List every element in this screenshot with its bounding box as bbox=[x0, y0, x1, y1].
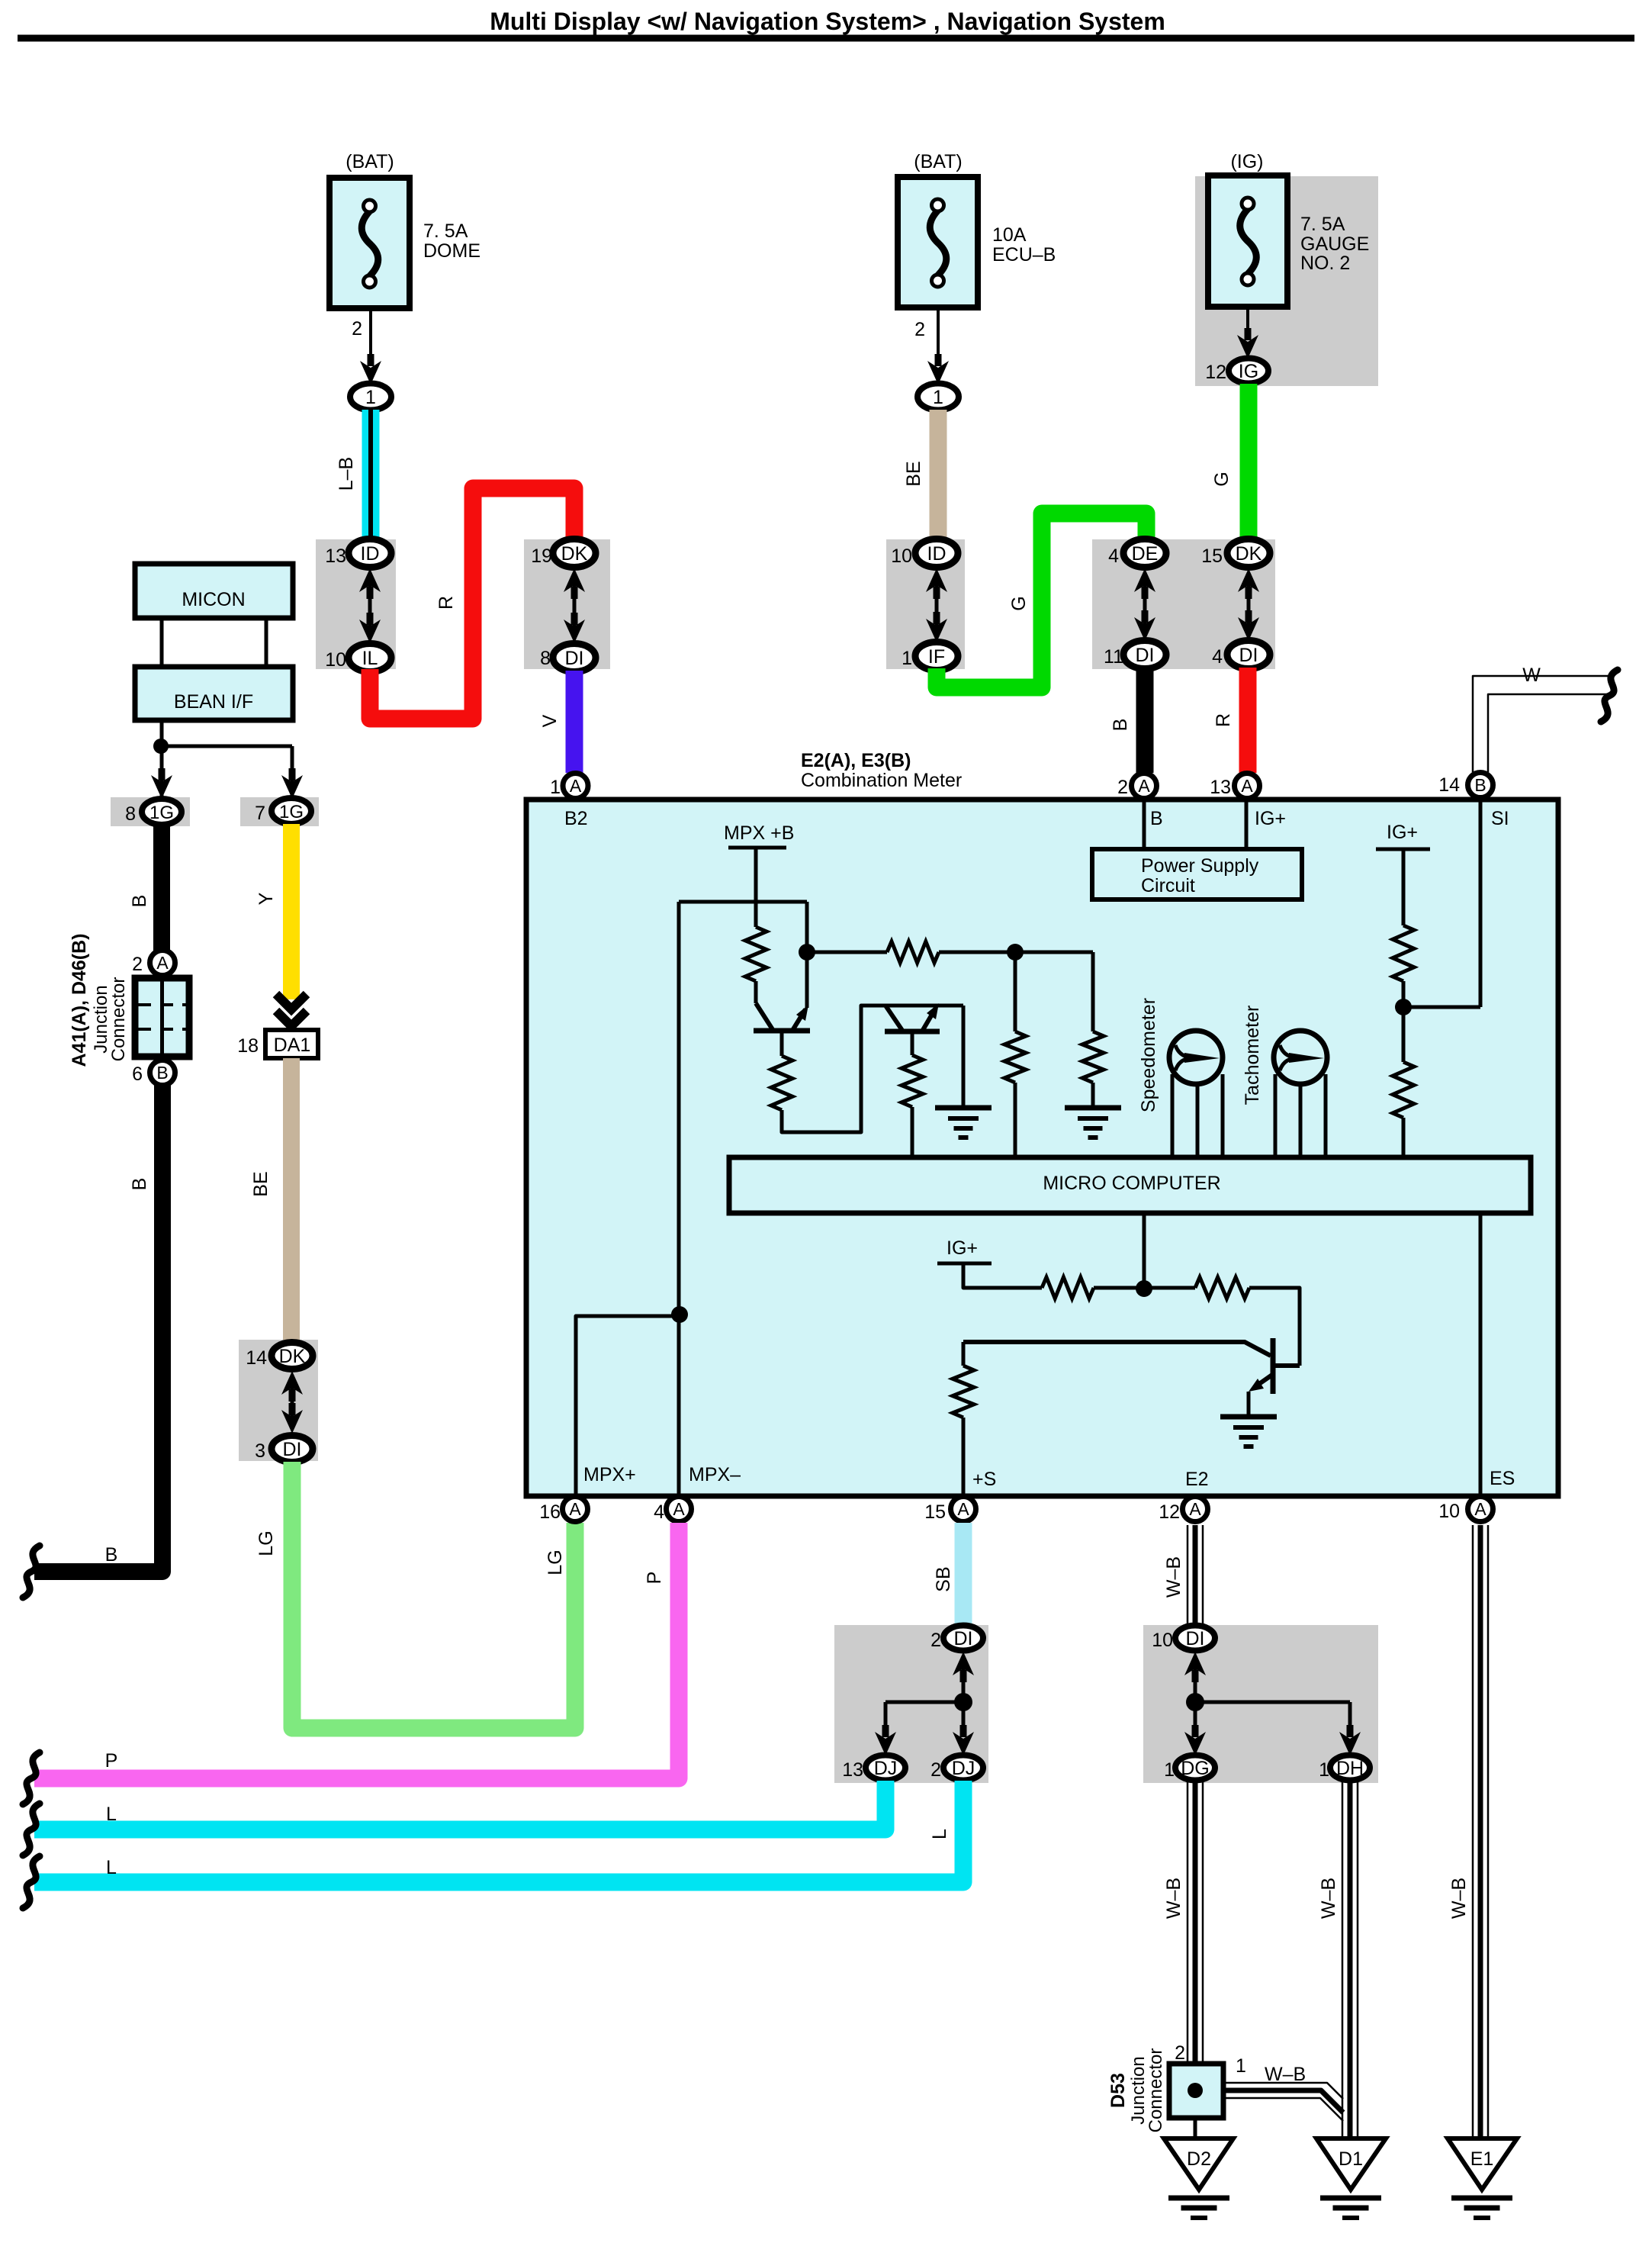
wire to MPX+ pin bbox=[576, 1316, 680, 1496]
resistor R8 bbox=[1393, 1062, 1414, 1118]
svg-text:Connector: Connector bbox=[108, 977, 129, 1062]
connector block 19 DK / 8 DI bbox=[524, 539, 610, 669]
svg-text:D53: D53 bbox=[1107, 2073, 1129, 2108]
arrow to 13 DJ bbox=[884, 1702, 888, 1733]
block BEAN I/F bbox=[135, 667, 293, 720]
wire break W bbox=[1601, 670, 1618, 722]
svg-text:DI: DI bbox=[565, 648, 584, 669]
resistor R9 bbox=[1042, 1277, 1094, 1298]
svg-text:1: 1 bbox=[933, 387, 943, 408]
node DG/DH split bbox=[1186, 1693, 1204, 1711]
svg-text:DA1: DA1 bbox=[274, 1035, 311, 1056]
wire R from 4 DI to meter pin 13 A bbox=[1239, 668, 1257, 773]
svg-text:6: 6 bbox=[132, 1064, 143, 1085]
svg-text:ID: ID bbox=[927, 543, 947, 565]
transistor Q2 bbox=[885, 1006, 903, 1031]
svg-text:IF: IF bbox=[928, 646, 945, 668]
svg-text:2: 2 bbox=[930, 1630, 941, 1651]
svg-text:(IG): (IG) bbox=[1230, 151, 1263, 172]
svg-text:MICRO COMPUTER: MICRO COMPUTER bbox=[1043, 1173, 1220, 1194]
transistor Q1 bbox=[756, 1003, 773, 1031]
svg-text:MPX+: MPX+ bbox=[583, 1464, 636, 1485]
svg-text:P: P bbox=[105, 1750, 118, 1772]
svg-text:R: R bbox=[435, 596, 457, 610]
connector oval 1 (ECU-B) bbox=[918, 384, 959, 410]
svg-text:G: G bbox=[1211, 471, 1233, 486]
micro computer block bbox=[729, 1157, 1531, 1213]
svg-text:13: 13 bbox=[1210, 777, 1231, 798]
svg-text:BE: BE bbox=[250, 1171, 272, 1196]
svg-text:B2: B2 bbox=[564, 808, 588, 829]
svg-text:B: B bbox=[105, 1544, 118, 1566]
ground under R6 bbox=[1065, 1105, 1121, 1111]
block MICON bbox=[135, 564, 293, 618]
svg-text:ES: ES bbox=[1490, 1468, 1515, 1489]
svg-text:DI: DI bbox=[1136, 645, 1155, 666]
svg-text:MPX–: MPX– bbox=[689, 1464, 741, 1485]
svg-text:L–B: L–B bbox=[336, 457, 357, 491]
svg-text:E2: E2 bbox=[1185, 1469, 1209, 1490]
resistor R2 bbox=[807, 951, 887, 954]
connector block 4 DE / 11 DI and 15 DK / 4 DI bbox=[1092, 539, 1275, 669]
svg-text:4: 4 bbox=[654, 1501, 664, 1523]
svg-text:NO. 2: NO. 2 bbox=[1300, 253, 1350, 274]
svg-text:W–B: W–B bbox=[1163, 1556, 1184, 1598]
svg-text:DK: DK bbox=[1236, 543, 1262, 565]
svg-text:DH: DH bbox=[1336, 1758, 1364, 1779]
svg-text:D1: D1 bbox=[1339, 2148, 1363, 2170]
wire to MPX- pin bbox=[677, 1315, 681, 1496]
svg-text:ECU–B: ECU–B bbox=[992, 244, 1056, 265]
svg-text:GAUGE: GAUGE bbox=[1300, 233, 1369, 255]
svg-text:13: 13 bbox=[842, 1759, 863, 1781]
svg-text:B: B bbox=[129, 1178, 150, 1191]
svg-text:14: 14 bbox=[1438, 774, 1460, 796]
wire BEAN I/F to 1G connectors bbox=[160, 720, 164, 799]
svg-text:DJ: DJ bbox=[874, 1758, 898, 1779]
svg-text:BE: BE bbox=[903, 461, 924, 486]
svg-text:R: R bbox=[1213, 713, 1234, 727]
svg-text:SI: SI bbox=[1491, 808, 1509, 829]
connector 8 1G bbox=[111, 797, 190, 826]
svg-text:LG: LG bbox=[545, 1550, 566, 1575]
wires MICON to BEAN I/F bbox=[160, 618, 164, 667]
resistor R6 with ground bbox=[1091, 952, 1095, 1031]
svg-text:2: 2 bbox=[1175, 2042, 1185, 2064]
svg-text:16: 16 bbox=[539, 1501, 561, 1523]
svg-text:2: 2 bbox=[132, 954, 143, 975]
svg-text:A: A bbox=[957, 1499, 969, 1519]
svg-text:8: 8 bbox=[125, 803, 136, 825]
connector block 10 ID / 1 IF bbox=[886, 539, 965, 669]
resistor R10 bbox=[1195, 1277, 1249, 1298]
svg-text:2: 2 bbox=[352, 318, 362, 340]
svg-text:DOME: DOME bbox=[423, 240, 480, 262]
wire L from 13 DJ to break bbox=[34, 1781, 885, 1829]
connector 18 DA1 bbox=[265, 1030, 318, 1058]
svg-text:12: 12 bbox=[1205, 362, 1226, 383]
svg-text:19: 19 bbox=[531, 545, 552, 567]
svg-text:Power Supply: Power Supply bbox=[1141, 855, 1259, 877]
wire W-B from 12 A to 10 DI bbox=[1187, 1525, 1189, 1626]
svg-text:A: A bbox=[570, 776, 582, 796]
wire W-B from 1 DH to D1 bbox=[1342, 1781, 1344, 2138]
svg-text:DE: DE bbox=[1132, 543, 1159, 565]
node DJ split bbox=[954, 1693, 972, 1711]
node R2 left bbox=[799, 944, 815, 961]
svg-text:IG: IG bbox=[1239, 361, 1258, 382]
svg-text:8: 8 bbox=[540, 648, 551, 669]
svg-text:W: W bbox=[1522, 665, 1541, 686]
svg-text:D2: D2 bbox=[1187, 2148, 1211, 2170]
svg-text:15: 15 bbox=[1201, 545, 1223, 567]
arrow to 2 DJ bbox=[962, 1702, 966, 1733]
node MPX junction bbox=[671, 1306, 688, 1323]
fuse 7.5A GAUGE NO.2 (IG) with grey panel bbox=[1195, 176, 1378, 386]
svg-text:B: B bbox=[1150, 808, 1163, 829]
svg-text:W–B: W–B bbox=[1318, 1878, 1339, 1919]
junction connector A41(A) D46(B) bbox=[135, 978, 189, 1057]
svg-text:LG: LG bbox=[256, 1530, 277, 1556]
wire Q1 collector feed bbox=[805, 902, 809, 1008]
svg-text:Multi Display <w/ Navigation S: Multi Display <w/ Navigation System> , N… bbox=[490, 8, 1165, 35]
svg-text:1: 1 bbox=[902, 648, 912, 669]
svg-text:10: 10 bbox=[891, 545, 912, 567]
svg-text:DI: DI bbox=[283, 1439, 302, 1460]
svg-text:DI: DI bbox=[1186, 1628, 1205, 1649]
svg-text:IG+: IG+ bbox=[1255, 808, 1286, 829]
svg-text:1G: 1G bbox=[279, 802, 304, 822]
power supply circuit block bbox=[1143, 800, 1146, 849]
svg-text:12: 12 bbox=[1159, 1501, 1180, 1523]
svg-text:G: G bbox=[1008, 596, 1030, 610]
svg-text:18: 18 bbox=[237, 1035, 259, 1057]
svg-text:L: L bbox=[106, 1804, 117, 1825]
svg-text:DK: DK bbox=[561, 543, 588, 565]
connector oval 1 (DOME) bbox=[350, 384, 391, 410]
wire L-B from DOME fuse to 13 ID bbox=[362, 410, 380, 540]
svg-text:A: A bbox=[1474, 1499, 1486, 1519]
svg-text:B: B bbox=[1110, 719, 1131, 732]
svg-text:Y: Y bbox=[256, 892, 277, 905]
transistor Q3 bbox=[963, 1342, 1271, 1356]
svg-text:DJ: DJ bbox=[952, 1758, 975, 1779]
svg-text:1G: 1G bbox=[149, 803, 174, 823]
ground E1 bbox=[1448, 2138, 1517, 2190]
svg-text:L: L bbox=[929, 1829, 950, 1839]
svg-text:A: A bbox=[1138, 776, 1150, 796]
node R9/R10 bbox=[1136, 1280, 1152, 1297]
wire LG from 3 DI to meter pin 16 A bbox=[292, 1462, 575, 1728]
svg-text:A: A bbox=[156, 953, 169, 973]
ground Q3 emitter bbox=[1247, 1392, 1251, 1417]
svg-text:MPX +B: MPX +B bbox=[724, 822, 794, 844]
svg-text:10A: 10A bbox=[992, 224, 1027, 246]
svg-text:A41(A), D46(B): A41(A), D46(B) bbox=[69, 933, 90, 1067]
connector arrow into DA1 bbox=[276, 994, 307, 1009]
wire break B bbox=[23, 1546, 40, 1598]
svg-text:Combination Meter: Combination Meter bbox=[801, 770, 962, 791]
svg-text:IL: IL bbox=[362, 648, 378, 669]
wire W-B from 1 DG to D53 bbox=[1187, 1781, 1189, 2064]
svg-text:4: 4 bbox=[1108, 545, 1119, 567]
svg-text:A: A bbox=[673, 1499, 685, 1519]
svg-text:V: V bbox=[539, 714, 561, 727]
resistor R11 to +S bbox=[962, 1342, 966, 1366]
resistor R1 bbox=[745, 927, 767, 981]
svg-text:7: 7 bbox=[255, 803, 265, 824]
svg-text:Tachometer: Tachometer bbox=[1242, 1006, 1263, 1105]
svg-text:IG+: IG+ bbox=[947, 1237, 978, 1259]
connector 7 1G bbox=[240, 797, 319, 826]
svg-text:Circuit: Circuit bbox=[1141, 875, 1195, 896]
svg-text:DK: DK bbox=[279, 1346, 306, 1367]
svg-text:SB: SB bbox=[933, 1566, 954, 1591]
wire B from 8 1G to junction connector A bbox=[153, 825, 170, 951]
svg-text:14: 14 bbox=[246, 1347, 267, 1369]
ground D2 bbox=[1164, 2138, 1233, 2190]
svg-text:BEAN I/F: BEAN I/F bbox=[174, 691, 253, 713]
svg-text:IG+: IG+ bbox=[1387, 822, 1418, 843]
svg-text:P: P bbox=[644, 1572, 665, 1585]
svg-text:3: 3 bbox=[255, 1440, 265, 1462]
wire P from 4 A to break bbox=[34, 1523, 679, 1778]
wire D53 to ground D2 bbox=[1194, 2118, 1197, 2138]
svg-text:W–B: W–B bbox=[1448, 1878, 1470, 1919]
wire W-B from 10 A to E1 bbox=[1472, 1525, 1474, 2138]
wire SI to node bbox=[1403, 1006, 1480, 1009]
connector block 10 DI / 1 DG / 1 DH bbox=[1143, 1625, 1378, 1783]
wire ES bbox=[1479, 1213, 1483, 1496]
svg-text:A: A bbox=[1189, 1499, 1201, 1519]
wire fuse GAUGE to 12 IG bbox=[1246, 307, 1249, 336]
svg-text:A: A bbox=[1241, 776, 1253, 796]
wire B from 11 DI to meter pin 2 A bbox=[1136, 668, 1154, 773]
svg-text:(BAT): (BAT) bbox=[346, 151, 394, 172]
svg-text:DI: DI bbox=[1239, 645, 1258, 666]
node IG+/SI bbox=[1395, 999, 1412, 1015]
svg-text:DG: DG bbox=[1181, 1758, 1210, 1779]
svg-text:2: 2 bbox=[914, 319, 925, 340]
svg-text:ID: ID bbox=[361, 543, 380, 565]
svg-text:2: 2 bbox=[930, 1759, 941, 1781]
svg-text:B: B bbox=[1474, 775, 1486, 795]
wire L from 2 DJ to break bbox=[34, 1781, 963, 1882]
svg-text:15: 15 bbox=[924, 1501, 946, 1523]
svg-text:Speedometer: Speedometer bbox=[1138, 998, 1159, 1112]
ground Q2 collector bbox=[962, 1006, 966, 1108]
svg-text:7. 5A: 7. 5A bbox=[1300, 214, 1345, 235]
svg-text:10: 10 bbox=[325, 649, 346, 671]
svg-text:+S: +S bbox=[972, 1469, 996, 1490]
svg-text:1: 1 bbox=[550, 777, 561, 798]
svg-text:L: L bbox=[106, 1857, 117, 1878]
svg-text:2: 2 bbox=[1117, 777, 1128, 798]
wire G from 12 IG to 15 DK bbox=[1240, 384, 1258, 540]
svg-text:1: 1 bbox=[1236, 2055, 1246, 2077]
node R5 top bbox=[1007, 944, 1024, 961]
svg-text:1: 1 bbox=[365, 387, 376, 408]
wire BE from DA1 to 14 DK bbox=[283, 1058, 300, 1340]
svg-text:E1: E1 bbox=[1470, 2148, 1494, 2170]
svg-text:DI: DI bbox=[954, 1628, 973, 1649]
svg-text:Connector: Connector bbox=[1146, 2048, 1166, 2133]
svg-text:7. 5A: 7. 5A bbox=[423, 220, 468, 242]
connector block 2 DI / 13 DJ / 2 DJ bbox=[834, 1625, 988, 1783]
connector block 14 DK / 3 DI bbox=[239, 1340, 318, 1461]
ground D1 bbox=[1316, 2138, 1386, 2190]
resistor Q1 base bbox=[780, 1031, 784, 1056]
svg-text:4: 4 bbox=[1212, 646, 1223, 668]
wire G from 1 IF to 4 DE bbox=[937, 513, 1146, 687]
svg-text:(BAT): (BAT) bbox=[914, 151, 962, 172]
wire MPX branch bbox=[679, 900, 807, 904]
svg-text:10: 10 bbox=[1438, 1501, 1460, 1522]
svg-text:B: B bbox=[129, 895, 150, 908]
wire R2 to R6 corner bbox=[939, 951, 1093, 954]
resistor Q2 base bbox=[911, 1031, 914, 1055]
resistor R7 bbox=[1393, 925, 1414, 981]
wire B from junction connector to break bbox=[34, 1085, 162, 1572]
title rule bbox=[18, 35, 1634, 42]
connector block 13 ID / 10 IL bbox=[316, 539, 396, 669]
svg-text:13: 13 bbox=[325, 545, 346, 567]
svg-text:B: B bbox=[156, 1063, 168, 1083]
svg-text:10: 10 bbox=[1152, 1630, 1173, 1651]
wire V from 8 DI to meter pin 1 A bbox=[566, 671, 583, 773]
svg-text:A: A bbox=[569, 1499, 581, 1519]
wire W into meter pin 14 B bbox=[1473, 676, 1608, 772]
wire SB from 15 A to 2 DI bbox=[955, 1523, 972, 1626]
resistor R5 bbox=[1014, 952, 1017, 1031]
wire BE from ECU-B fuse to 10 ID bbox=[930, 410, 947, 540]
svg-text:E2(A), E3(B): E2(A), E3(B) bbox=[801, 750, 911, 771]
wire Y from 7 1G to 18 DA1 bbox=[283, 824, 300, 999]
svg-text:W–B: W–B bbox=[1163, 1878, 1184, 1919]
svg-text:MICON: MICON bbox=[182, 589, 245, 610]
wire R from 10 IL to 19 DK bbox=[370, 488, 574, 719]
